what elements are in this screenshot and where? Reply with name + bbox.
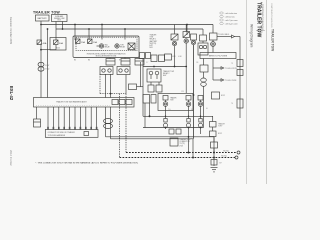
bus line 1 — [41, 24, 213, 26]
right lower boxes — [212, 92, 220, 99]
svg-text:MODULE ENGINE ROOM): MODULE ENGINE ROOM) — [96, 55, 117, 57]
bottom right component stack — [211, 142, 218, 148]
fuse F2 50A — [54, 40, 59, 45]
IPDM E/R box — [73, 36, 139, 58]
svg-text:40A: 40A — [43, 42, 47, 45]
wide thin reference box — [200, 53, 236, 59]
svg-text:: without tow: : without tow — [225, 16, 236, 19]
right cluster components — [203, 59, 205, 66]
right edge column — [239, 37, 241, 119]
svg-text:TOW: TOW — [150, 37, 154, 39]
svg-text:E105: E105 — [56, 48, 60, 50]
inline connector ovals mid bottom — [105, 107, 107, 137]
svg-text:: with 4-pin conn: : with 4-pin conn — [225, 23, 238, 26]
svg-text:E152: E152 — [218, 133, 222, 135]
svg-text:Wiring Diagram: Wiring Diagram — [250, 24, 254, 48]
svg-text:T4: T4 — [231, 103, 233, 105]
junction dots bus1 — [40, 24, 188, 26]
connector tag near strip — [129, 84, 137, 90]
second left vertical — [47, 29, 49, 98]
svg-text:50A: 50A — [59, 42, 63, 45]
bottom cluster boxes — [169, 129, 174, 134]
bottom row connector boxes — [143, 95, 150, 104]
relay coil 1 — [99, 44, 103, 48]
svg-text:TOW SUB HARNESS: TOW SUB HARNESS — [48, 134, 66, 137]
trailer tow connector label box — [45, 130, 98, 138]
header underline — [256, 30, 265, 32]
svg-text:E107: E107 — [46, 65, 50, 67]
legend top right — [220, 12, 238, 26]
mid horizontal tie y66.5 — [143, 66, 186, 68]
relay dashed box inside — [76, 37, 137, 50]
svg-text:CONNECTOR SIDE OF TRAILER: CONNECTOR SIDE OF TRAILER — [48, 131, 76, 134]
svg-text:* : THIS CONNECTOR IS NOT SHOW: * : THIS CONNECTOR IS NOT SHOWN IN THE H… — [35, 162, 139, 165]
relay box mid A — [147, 69, 161, 82]
svg-text:REFER TO PG-POWER: REFER TO PG-POWER — [209, 56, 228, 58]
svg-text:TOW*: TOW* — [218, 126, 223, 128]
solid drops below IPDM — [109, 58, 111, 59]
bus 1 corner drop right — [212, 25, 214, 34]
coil marks below — [163, 123, 167, 127]
wire box2 drop left — [55, 22, 57, 30]
right top component at 213 — [210, 33, 218, 40]
svg-text:TOW: TOW — [120, 45, 124, 47]
fuse F3 15A — [76, 39, 81, 44]
svg-text:BATTERY: BATTERY — [38, 17, 48, 20]
svg-text:2012 Frontier: 2012 Frontier — [9, 150, 13, 166]
wire code specks — [146, 56, 208, 111]
bottom mid horizontal tie — [143, 127, 204, 129]
svg-text:SUPPLY): SUPPLY) — [150, 43, 157, 45]
svg-text:T3 (T4): T3 (T4) — [223, 151, 229, 153]
right margin page rule — [246, 0, 248, 184]
battery box — [36, 15, 50, 21]
stack outside right — [198, 96, 203, 101]
svg-text:T3: T3 — [231, 63, 233, 65]
svg-text:TRAILER TOW: TRAILER TOW — [33, 11, 60, 15]
svg-text:CONNECTOR: CONNECTOR — [180, 141, 191, 143]
svg-text:FUSIBLE LINK: FUSIBLE LINK — [54, 18, 66, 20]
svg-text:15A: 15A — [81, 41, 85, 44]
terminal marks — [47, 127, 97, 130]
svg-text:TO EXL-STOP/L: TO EXL-STOP/L — [225, 68, 238, 70]
svg-text:B7: B7 — [220, 163, 222, 165]
relay coil 2 — [115, 44, 119, 48]
svg-text:15A: 15A — [93, 41, 97, 44]
arrow to EXL — [217, 36, 232, 38]
fusible link box U1 — [52, 15, 68, 22]
svg-text:: with 7-pin conn: : with 7-pin conn — [225, 19, 238, 22]
fuse block small box — [50, 38, 66, 51]
crossing dots on double line — [188, 136, 190, 138]
stack A fuse+coil — [174, 25, 176, 35]
junction dots bus2 — [62, 28, 126, 30]
bus 2 corner drop right — [202, 29, 204, 35]
dashed rails — [99, 74, 101, 94]
svg-text:TRAILER TOW: TRAILER TOW — [271, 29, 275, 51]
rail end connectors — [237, 151, 240, 154]
terminal square marks — [164, 119, 167, 123]
svg-text:(T4)*: (T4)* — [180, 145, 184, 147]
svg-text:E152: E152 — [221, 95, 225, 97]
svg-text:E5: E5 — [74, 60, 76, 62]
ground symbol — [211, 160, 217, 166]
bus line 2 — [56, 28, 203, 30]
wire battery drop — [40, 21, 42, 25]
svg-text:1 B: 1 B — [196, 62, 198, 64]
relay contact groups below — [100, 67, 113, 75]
stack B fuse+coil — [185, 25, 187, 32]
drops from buses to fuse row — [40, 25, 42, 41]
double line to right cluster — [106, 136, 215, 138]
fuse F1 40A — [37, 40, 42, 45]
lower relay box enclosure — [158, 94, 193, 111]
svg-text:5 Y: 5 Y — [146, 62, 148, 64]
right edge page stack line — [266, 0, 268, 184]
wire box2 drop right — [62, 22, 64, 30]
strip pin texture row — [36, 105, 110, 107]
mid cluster left connector boxes — [140, 53, 145, 59]
svg-text:TRAILER TOW: TRAILER TOW — [256, 2, 262, 37]
svg-text:E152: E152 — [46, 69, 50, 71]
svg-text:T2 (T3): T2 (T3) — [180, 143, 186, 145]
left sub drop with connector — [36, 107, 38, 119]
mid small boxes row — [151, 55, 157, 62]
bottom right column boxes — [210, 122, 217, 128]
svg-text:M31: M31 — [150, 47, 153, 49]
svg-text:< COMPONENT DIAGNOSIS >: < COMPONENT DIAGNOSIS > — [261, 2, 264, 33]
stack C box+coil long vertical — [191, 34, 197, 40]
svg-text:T3 (T4): T3 (T4) — [221, 156, 227, 158]
connector drops below strip — [47, 107, 49, 130]
svg-text:TO EXL-TAIL/L: TO EXL-TAIL/L — [218, 33, 229, 36]
svg-text:: with trailer tow: : with trailer tow — [225, 12, 238, 15]
svg-text:TRAILER TOW SUB HARNESS ASSY: TRAILER TOW SUB HARNESS ASSY — [56, 101, 88, 104]
svg-text:E6: E6 — [88, 60, 90, 62]
svg-text:TO EXL-TURN: TO EXL-TURN — [225, 80, 237, 82]
fuse F4 15A — [88, 39, 93, 44]
mid terminal boxes — [148, 85, 154, 92]
svg-text:EXL-42: EXL-42 — [9, 86, 14, 101]
page background — [0, 0, 274, 184]
svg-text:E38: E38 — [173, 56, 176, 58]
fuse1 output junction — [40, 44, 42, 98]
svg-text:TOW: TOW — [170, 99, 174, 101]
right stack from bus2 — [200, 35, 207, 41]
lamp box symbol — [128, 43, 135, 50]
svg-text:Revision: October 2009: Revision: October 2009 — [9, 17, 13, 45]
connector tag boxes below IPDM — [106, 59, 115, 66]
IPDM pin texture row — [76, 49, 136, 51]
inline connector on left wire — [38, 62, 44, 66]
svg-text:E45*: E45* — [150, 45, 154, 47]
feeds above strip — [105, 74, 107, 98]
svg-text:E46*: E46* — [163, 75, 167, 77]
svg-text:6 L: 6 L — [206, 108, 208, 110]
svg-text:COMPONENT DIAGNOSIS: COMPONENT DIAGNOSIS — [270, 3, 273, 28]
lower horizontal line y116 — [143, 115, 213, 117]
right arrows column — [212, 59, 214, 69]
bottom strip box — [34, 98, 135, 108]
